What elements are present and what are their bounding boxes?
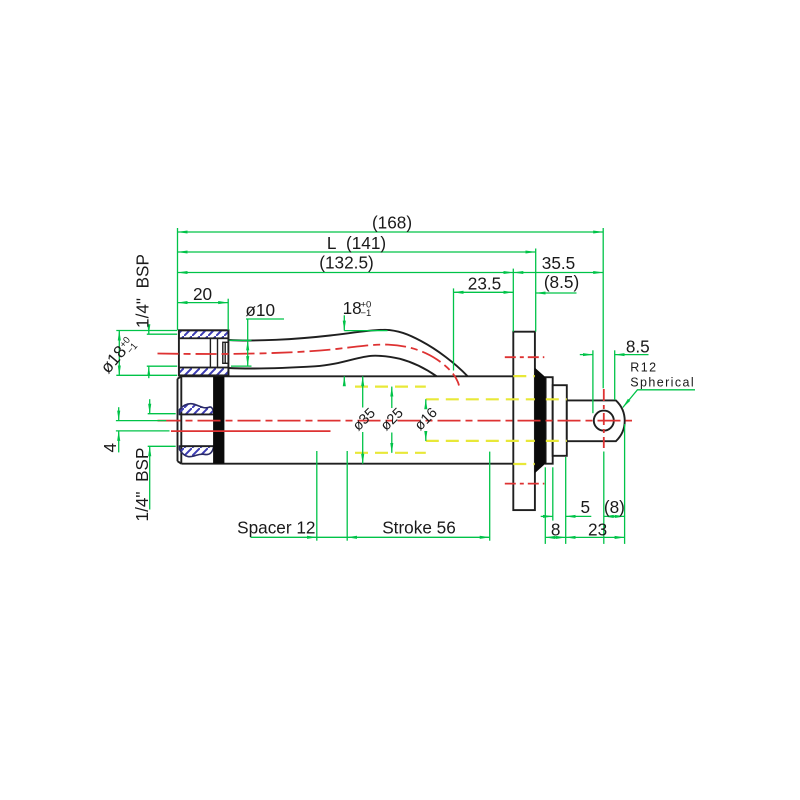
dim line 5 <box>541 515 553 517</box>
end cap thread upper <box>180 404 215 415</box>
dim line 20 <box>178 302 229 304</box>
flange bolt centerline upper <box>505 356 545 358</box>
dim line (168) <box>178 231 604 233</box>
dim line dia35 <box>362 376 364 407</box>
dim line dia25 <box>391 387 393 408</box>
svg-text:Stroke 56: Stroke 56 <box>382 518 456 538</box>
dim line 35.5 <box>513 272 603 274</box>
svg-text:23.5: 23.5 <box>468 274 501 294</box>
extension lines BSP bottom port <box>148 413 176 415</box>
svg-text:L (141): L (141) <box>327 233 386 253</box>
svg-text:8.5: 8.5 <box>626 336 650 356</box>
dim line 8 <box>545 536 565 538</box>
dim line 23 <box>566 536 625 538</box>
leader dia10 <box>247 319 249 340</box>
svg-text:Spacer 12: Spacer 12 <box>237 518 315 538</box>
dim line offset 4 <box>118 407 120 420</box>
port fitting bore steps <box>210 338 228 367</box>
rod with spherical end <box>567 400 625 441</box>
tube bottom edge <box>228 356 436 376</box>
dia 18 tolerance label <box>96 333 140 379</box>
dim line dia18 <box>118 331 120 376</box>
svg-text:R12: R12 <box>630 360 657 374</box>
cylinder body <box>178 376 514 463</box>
svg-text:4: 4 <box>100 442 120 452</box>
svg-text:23: 23 <box>588 519 607 539</box>
green dimension graphics <box>116 228 695 544</box>
port fitting top hatch <box>179 330 229 338</box>
hidden bore lines (yellow) <box>355 376 567 464</box>
extension lines dia18 <box>116 330 177 332</box>
dim line BSP bottom port <box>149 399 151 414</box>
leader R12 spherical <box>623 390 695 408</box>
main centerline <box>158 420 633 422</box>
tube top edge <box>228 330 467 376</box>
extension line flange right face <box>535 249 537 332</box>
hole centerline vertical <box>603 389 605 448</box>
extension line tube crest <box>344 330 387 332</box>
dim line dia16 <box>425 399 427 406</box>
svg-text:18: 18 <box>343 298 362 318</box>
extension line nut right face <box>227 299 229 331</box>
flange bolt centerline lower <box>505 483 545 485</box>
dim line (132.5) <box>178 272 514 274</box>
pin hole <box>594 411 614 431</box>
svg-text:(8): (8) <box>604 497 625 517</box>
svg-text:20: 20 <box>193 284 212 304</box>
dim line BSP top port <box>148 327 150 335</box>
extension lines BSP top port <box>147 333 177 335</box>
port centerline <box>158 345 460 386</box>
svg-text:1/4" BSP: 1/4" BSP <box>133 254 153 328</box>
extension lines spacer and stroke <box>316 451 318 541</box>
port fitting bottom hatch <box>179 368 229 376</box>
extension lines hole dia8.5 <box>592 350 594 413</box>
extension lines tube dia10 <box>229 339 251 341</box>
svg-text:(8.5): (8.5) <box>544 272 579 292</box>
rod collar 2 <box>553 385 567 456</box>
dimension texts <box>193 213 695 540</box>
svg-text:5: 5 <box>581 497 591 517</box>
svg-text:8: 8 <box>551 519 561 539</box>
seal band <box>213 376 224 463</box>
svg-text:35.5: 35.5 <box>542 253 575 273</box>
dim line (8) <box>604 515 625 517</box>
rotated labels <box>96 254 441 521</box>
extension lines rod steps <box>544 467 546 544</box>
svg-text:1/4" BSP: 1/4" BSP <box>132 448 152 522</box>
lower port line <box>171 430 331 432</box>
dim line 18 tube height <box>343 315 345 330</box>
extension line left datum face <box>177 228 179 330</box>
svg-text:−1: −1 <box>361 308 372 319</box>
svg-text:(132.5): (132.5) <box>319 253 373 273</box>
end cap thread lower <box>180 446 214 457</box>
dim line stroke 56 <box>347 536 490 538</box>
port fitting body <box>179 330 229 375</box>
dim line L (141) <box>178 251 536 253</box>
extension lines offset 4 <box>116 420 166 422</box>
dim line 8.5 hole <box>580 354 593 356</box>
extension line flange left face <box>512 269 514 332</box>
svg-text:Spherical: Spherical <box>630 375 695 389</box>
dim line spacer 12 <box>251 536 317 538</box>
dim line (8.5) <box>536 292 577 294</box>
extension line pin hole center <box>602 228 604 388</box>
svg-text:(168): (168) <box>372 213 412 233</box>
gland taper (black) <box>535 368 546 473</box>
flange <box>513 332 535 510</box>
dim line dia10 <box>247 340 249 366</box>
dim line 23.5 <box>454 291 514 293</box>
svg-text:ø10: ø10 <box>245 300 275 320</box>
rod collar 1 <box>546 377 553 464</box>
extension line tube entry <box>453 288 455 370</box>
